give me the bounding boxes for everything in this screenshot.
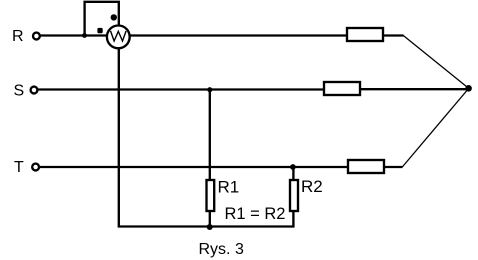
- svg-text:Rys. 3: Rys. 3: [199, 241, 244, 258]
- resistor R2: [290, 180, 298, 211]
- polarity mark current coil: [97, 28, 102, 33]
- terminal T: [32, 164, 39, 171]
- polarity mark voltage coil: [111, 14, 117, 20]
- wire R load to diagonal: [384, 34, 404, 36]
- wire R line right: [130, 34, 347, 36]
- terminal S: [31, 87, 38, 94]
- wire T diagonal to star point: [402, 89, 468, 168]
- svg-text:R2: R2: [301, 177, 323, 196]
- wire T line: [40, 166, 348, 168]
- junction on S line (R1 branch): [207, 87, 212, 92]
- terminal R: [33, 33, 40, 40]
- load resistor phase R: [347, 28, 383, 41]
- wire S line: [38, 88, 324, 90]
- svg-text:R1: R1: [218, 177, 240, 196]
- svg-text:R: R: [12, 28, 24, 45]
- wire R line left: [41, 34, 108, 36]
- wire voltage-coil loop: [85, 2, 119, 36]
- node star point: [465, 85, 472, 92]
- junction on T line (R2 branch): [290, 164, 296, 170]
- wire R2 top lead: [292, 167, 294, 181]
- load resistor phase S: [324, 82, 360, 95]
- resistor R1: [207, 180, 215, 211]
- wire R1 branch from S line: [209, 90, 211, 180]
- wire wattmeter bottom lead and bottom rail: [119, 48, 294, 227]
- wire S load to star point: [361, 88, 467, 90]
- load resistor phase T: [348, 160, 384, 173]
- wire R1 bottom lead: [209, 212, 211, 227]
- svg-text:S: S: [14, 83, 25, 100]
- wire T load to diagonal: [385, 166, 403, 168]
- junction on R line (voltage coil tap): [82, 33, 87, 38]
- svg-text:T: T: [14, 159, 24, 176]
- junction R1 bottom on rail: [207, 224, 213, 230]
- svg-text:R1 = R2: R1 = R2: [225, 205, 286, 223]
- wattmeter W: [107, 26, 130, 49]
- wire R diagonal to star point: [403, 36, 468, 89]
